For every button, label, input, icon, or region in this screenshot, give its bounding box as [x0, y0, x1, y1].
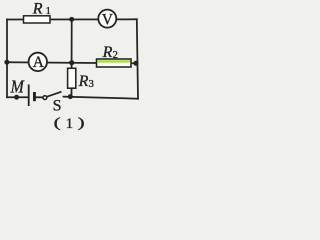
battery long plate — [28, 85, 30, 107]
switch S pivot contact — [43, 96, 47, 100]
junction left middle (node on left rail) — [4, 60, 9, 65]
svg-text:M: M — [10, 77, 25, 97]
svg-text:2: 2 — [113, 50, 118, 61]
wire vertical center (V/R3 stem) — [71, 19, 73, 96]
wire top — [7, 18, 137, 20]
resistor R3 — [68, 68, 76, 88]
junction bottom center (node R3 bottom) — [68, 94, 73, 99]
label R1 — [32, 1, 51, 18]
voltmeter V — [98, 10, 116, 29]
label R2 — [102, 44, 118, 61]
caption (1) — [54, 115, 85, 132]
junction battery-left (node M) — [14, 95, 19, 100]
junction top (node between R1 and V) — [69, 17, 74, 22]
switch S lever — [47, 92, 62, 97]
svg-text:R: R — [102, 44, 113, 61]
battery short thick plate — [33, 92, 36, 101]
label R3 — [78, 73, 94, 90]
svg-text:1: 1 — [66, 116, 74, 132]
svg-text:A: A — [33, 54, 45, 71]
svg-text:R: R — [78, 73, 89, 90]
junction right middle (node on right rail) — [133, 61, 138, 66]
junction center (node R2/R3) — [69, 60, 74, 65]
wire right — [137, 19, 138, 98]
svg-text:): ) — [78, 115, 85, 130]
wire bottom-left to battery — [7, 96, 29, 98]
wire bottom-right — [64, 97, 139, 99]
resistor R1 — [24, 16, 51, 23]
svg-text:S: S — [53, 97, 62, 114]
svg-text:R: R — [32, 1, 43, 18]
svg-text:V: V — [102, 11, 114, 28]
svg-text:3: 3 — [89, 79, 94, 90]
svg-text:(: ( — [54, 115, 61, 130]
resistor R2 (green highlighted) — [97, 59, 132, 67]
svg-text:1: 1 — [46, 6, 51, 17]
wire battery to switch — [36, 96, 43, 98]
wire left — [6, 20, 8, 98]
ammeter A — [29, 53, 47, 71]
wire middle (A-R2 branch) — [7, 62, 137, 63]
